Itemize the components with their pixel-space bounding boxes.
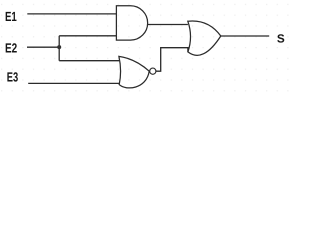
- wire E2 to junction: [27, 46, 59, 48]
- OR gate U3: [188, 21, 221, 55]
- wire junction to U2 input 1: [59, 60, 119, 62]
- wire E1 to U1 input 1: [27, 13, 116, 15]
- svg-text:E3: E3: [7, 70, 18, 85]
- junction node on E2: [57, 45, 61, 49]
- NOR gate U2 inversion bubble: [150, 68, 156, 74]
- svg-text:S: S: [277, 31, 285, 45]
- svg-text:E2: E2: [5, 40, 17, 55]
- wire U2 output to U3 input 2 (up and over): [156, 48, 188, 71]
- wire U3 output to S: [221, 35, 270, 37]
- wire E3 to U2 input 2: [28, 82, 119, 84]
- wire junction riser (vertical): [58, 36, 60, 61]
- svg-text:E1: E1: [5, 9, 17, 24]
- wire U1 output to U3 input 1: [148, 24, 188, 26]
- AND gate U1: [116, 6, 147, 40]
- wire junction to U1 input 2: [59, 35, 116, 37]
- NOR gate U2 body (OR shape): [119, 56, 149, 88]
